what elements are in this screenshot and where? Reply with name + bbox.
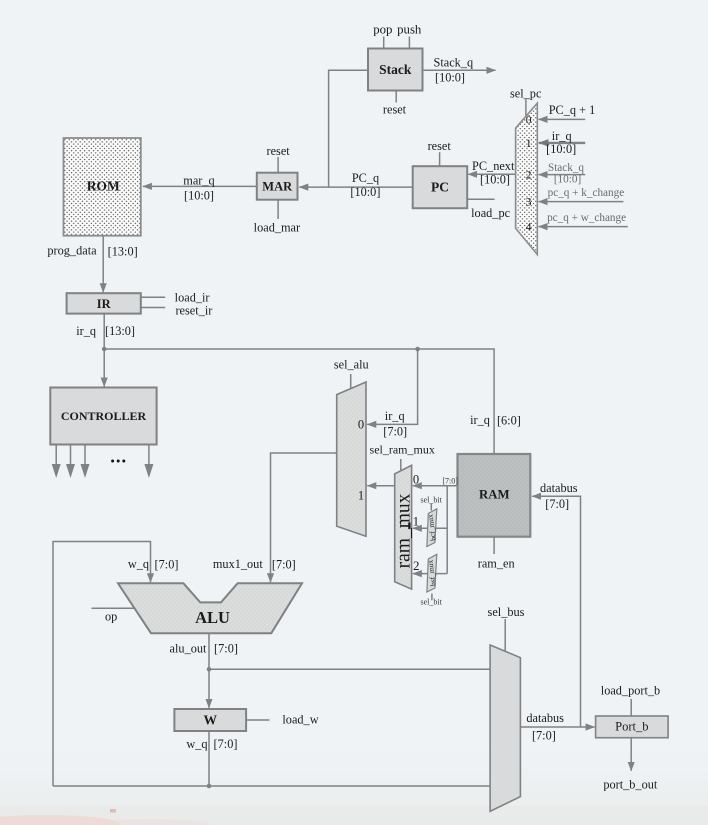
svg-text:mux1_out: mux1_out bbox=[213, 557, 263, 571]
svg-text:ALU: ALU bbox=[195, 608, 230, 627]
svg-text:op: op bbox=[105, 609, 117, 623]
svg-text:MAR: MAR bbox=[262, 180, 293, 194]
svg-text:PC_next: PC_next bbox=[472, 159, 515, 173]
svg-text:reset: reset bbox=[428, 139, 452, 153]
svg-text:load_mar: load_mar bbox=[254, 221, 300, 235]
svg-text:pop push: pop push bbox=[373, 22, 422, 36]
svg-text:[7:0]: [7:0] bbox=[383, 425, 407, 439]
svg-text:[7:0]: [7:0] bbox=[272, 557, 296, 571]
svg-text:ir_q: ir_q bbox=[385, 409, 405, 423]
svg-text:W: W bbox=[203, 713, 217, 728]
svg-text:sel_alu: sel_alu bbox=[334, 357, 369, 371]
svg-text:2: 2 bbox=[526, 170, 532, 182]
svg-text:ram_mux: ram_mux bbox=[394, 493, 415, 568]
svg-text:[13:0]: [13:0] bbox=[105, 324, 135, 338]
svg-text:Stack_q: Stack_q bbox=[548, 162, 584, 174]
svg-text:sel_bit: sel_bit bbox=[421, 495, 443, 504]
svg-text:PC_q: PC_q bbox=[352, 171, 379, 185]
svg-text:sel_pc: sel_pc bbox=[510, 86, 542, 100]
svg-text:3: 3 bbox=[526, 197, 532, 209]
svg-text:reset_ir: reset_ir bbox=[175, 303, 212, 317]
svg-text:sel_ram_mux: sel_ram_mux bbox=[370, 443, 435, 457]
svg-text:ir_q: ir_q bbox=[470, 413, 490, 427]
svg-text:[6:0]: [6:0] bbox=[497, 413, 521, 427]
svg-text:reset: reset bbox=[383, 102, 407, 116]
svg-text:Port_b: Port_b bbox=[615, 720, 648, 734]
svg-text:reset: reset bbox=[266, 144, 290, 158]
svg-text:ROM: ROM bbox=[87, 179, 120, 194]
svg-text:[7:0]: [7:0] bbox=[214, 642, 238, 656]
svg-text:alu_out: alu_out bbox=[170, 641, 207, 655]
svg-text:[10:0]: [10:0] bbox=[554, 174, 581, 186]
svg-text:[10:0]: [10:0] bbox=[546, 142, 576, 156]
svg-text:prog_data: prog_data bbox=[47, 244, 97, 258]
svg-text:[7:0]: [7:0] bbox=[532, 728, 556, 742]
svg-text:PC_q + 1: PC_q + 1 bbox=[549, 103, 596, 117]
svg-text:1: 1 bbox=[526, 138, 532, 150]
svg-text:port_b_out: port_b_out bbox=[603, 778, 658, 792]
svg-text:0: 0 bbox=[358, 417, 364, 431]
svg-text:Stack_q: Stack_q bbox=[433, 56, 473, 70]
svg-text:0: 0 bbox=[413, 472, 419, 486]
svg-text:0: 0 bbox=[526, 114, 532, 126]
svg-text:load_w: load_w bbox=[282, 712, 318, 726]
svg-text:Stack: Stack bbox=[379, 62, 412, 77]
svg-text:[10:0]: [10:0] bbox=[480, 172, 510, 186]
svg-text:RAM: RAM bbox=[479, 487, 510, 501]
svg-text:ir_q: ir_q bbox=[76, 324, 96, 338]
svg-text:[13:0]: [13:0] bbox=[108, 245, 138, 259]
svg-text:[7:0]: [7:0] bbox=[442, 477, 458, 486]
svg-text:sel_bit: sel_bit bbox=[421, 598, 443, 607]
svg-text:[7:0]: [7:0] bbox=[155, 557, 179, 571]
svg-text:w_q: w_q bbox=[186, 737, 207, 751]
svg-text:load_pc: load_pc bbox=[471, 206, 510, 220]
svg-text:mar_q: mar_q bbox=[183, 173, 214, 187]
svg-text:[10:0]: [10:0] bbox=[435, 70, 465, 84]
svg-text:pc_q + w_change: pc_q + w_change bbox=[547, 212, 626, 224]
svg-text:load_port_b: load_port_b bbox=[601, 683, 660, 697]
svg-text:IR: IR bbox=[97, 297, 112, 311]
svg-text:ram_en: ram_en bbox=[478, 557, 515, 571]
svg-text:PC: PC bbox=[431, 180, 449, 195]
svg-text:[7:0]: [7:0] bbox=[545, 497, 569, 511]
svg-text:[7:0]: [7:0] bbox=[214, 737, 238, 751]
svg-text:databus: databus bbox=[540, 481, 578, 495]
svg-text:w_q: w_q bbox=[128, 557, 149, 571]
svg-text:1: 1 bbox=[358, 488, 364, 502]
svg-text:[10:0]: [10:0] bbox=[350, 185, 380, 199]
svg-text:4: 4 bbox=[526, 222, 532, 234]
svg-text:CONTROLLER: CONTROLLER bbox=[61, 409, 147, 423]
svg-text:databus: databus bbox=[526, 711, 564, 725]
svg-text:pc_q + k_change: pc_q + k_change bbox=[548, 187, 625, 199]
svg-text:[10:0]: [10:0] bbox=[184, 189, 214, 203]
svg-text:sel_bus: sel_bus bbox=[488, 605, 525, 619]
